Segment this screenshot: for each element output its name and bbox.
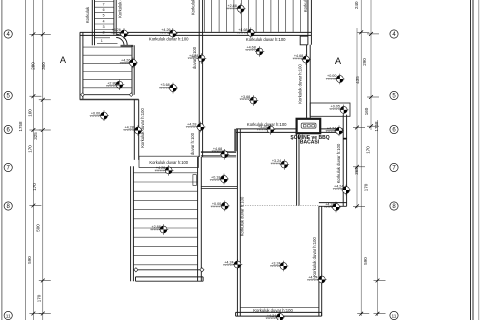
elevation +3.68 terrace mid [159,83,178,94]
right dim tick [367,95,379,99]
svg-text:Korkuluk duvar h:100: Korkuluk duvar h:100 [297,64,302,104]
elevation +4.24 long wall [223,259,242,270]
left dim tick [29,312,41,316]
chimney wall x306 [307,45,311,119]
elevation +3.24 room bottom [270,261,288,272]
right dim line B [360,0,362,316]
svg-text:365: 365 [354,167,359,175]
left dim tick [29,204,41,208]
grid bubble 8 right [390,202,398,210]
elevation +2.88 stair3 [226,4,245,15]
svg-text:+4.68: +4.68 [294,54,303,58]
stair1 left wall [92,0,94,45]
svg-text:170: 170 [36,294,41,302]
elevation +0.00 mid [211,201,230,212]
left dim tick [29,128,41,132]
grid bubble 4 right [390,30,398,38]
grid bubble 6 left [4,125,12,133]
svg-text:Korkuluk duvar h:100: Korkuluk duvar h:100 [312,237,317,277]
svg-text:+4.26: +4.26 [161,28,170,32]
svg-text:+4.68: +4.68 [238,28,247,32]
sheet right border inner [472,0,474,320]
svg-text:A: A [60,55,67,65]
svg-text:280: 280 [31,62,36,70]
wall right of niche [308,0,312,45]
elevation +4.26 big stair top [155,165,174,176]
elevation +4.24 wall x345 [333,184,351,195]
svg-text:+0.00: +0.00 [91,111,100,115]
svg-text:+0.05: +0.05 [331,105,340,109]
left dim tick [39,279,51,283]
svg-text:duvar h:100: duvar h:100 [190,132,195,155]
wall y130 left of fireplace [236,129,297,133]
stair1 treads [95,2,114,30]
elevation +2.88 big stair [150,224,168,235]
svg-text:435: 435 [355,76,360,84]
wall x235 [235,129,236,151]
svg-text:+4.68: +4.68 [213,147,222,151]
svg-text:1758: 1758 [18,121,23,132]
elevation +4.24 wall x320 [307,274,326,285]
svg-text:11: 11 [392,313,397,319]
elevation +3.68 main room [240,95,259,106]
sheet left border [1,0,3,320]
svg-text:Korkuluk: Korkuluk [303,0,308,12]
svg-text:11: 11 [6,313,11,319]
elevation +4.24 wall y130 right [326,126,344,137]
left dim tick [39,32,51,36]
svg-text:Korkuluk d: Korkuluk d [118,0,123,18]
wall y130 right of fireplace [320,129,343,133]
left dim tick [29,94,41,98]
svg-text:Korkuluk duvar h:100: Korkuluk duvar h:100 [336,143,341,183]
stair2 bottom wall [80,99,139,101]
stair2 railing line with posts [82,94,133,96]
wall x136 korkuluk [134,100,138,160]
sheet right border outer [470,0,472,320]
wall korkuluk y32 full [80,32,312,35]
right dim tick [367,124,379,128]
right dim tick [353,204,365,208]
right dim tick [357,30,369,34]
big stair label box [139,156,199,167]
stair2 treads [83,47,131,88]
stair1 landing tread b [97,43,118,45]
right wall x345 [343,115,346,207]
svg-text:Korkuluk duvar h:100: Korkuluk duvar h:100 [240,196,245,236]
elevation +0.00 lower terrace [90,110,109,121]
svg-text:duvar h:100: duvar h:100 [192,46,197,69]
wall cap x345 [343,138,346,140]
elevation +4.26 wall y32 stair1 [110,28,129,39]
stair3 treads top-center [204,0,308,32]
svg-text:3: 3 [103,25,105,29]
big stair railing line with posts [136,269,202,271]
svg-text:+4.24: +4.24 [224,260,233,264]
stair1 landing curve [116,34,127,45]
bottom room bottom wall [240,306,319,308]
svg-text:590: 590 [27,256,32,264]
door niche top-right [300,36,308,45]
thick low wall y154 [201,151,236,152]
railing wall y187 [201,186,238,188]
left dim chain line B [42,0,44,320]
right dim tick [357,312,369,316]
elevation +0.00 terrace A [326,74,345,85]
grid bubble 11 left [4,311,12,319]
right dim tick [374,312,386,316]
grid bubble 6 right [390,125,398,133]
svg-text:Korkuluk duvar h:100: Korkuluk duvar h:100 [253,308,293,313]
landing bottom wall [121,45,134,46]
svg-text:+4.28: +4.28 [124,126,133,130]
elevation +4.28 wall x200 [188,53,207,64]
svg-text:240: 240 [354,1,359,9]
stair2 left wall [80,32,83,99]
svg-text:A: A [335,56,342,66]
main room left wall x200 [199,0,202,157]
svg-text:Korkuluk duvar h:100: Korkuluk duvar h:100 [247,122,287,127]
right dim tick [353,165,365,169]
svg-text:4: 4 [103,19,105,23]
right dim tick [374,279,386,283]
big stair treads [133,173,197,265]
grid bubble 7 left [4,163,12,171]
left dim tick [39,98,51,102]
grid bubble 5 right [390,91,398,99]
svg-text:+4.26: +4.26 [121,58,130,62]
stair1 right wall [114,0,116,35]
svg-text:+4.68: +4.68 [246,45,255,49]
svg-text:1758: 1758 [374,121,379,132]
left dim line overall 1758 [24,0,26,320]
elevation +4.28 wall x200 low [186,122,206,133]
elevation +0.18 [210,174,229,185]
svg-text:+3.68: +3.68 [160,83,169,87]
elevation +4.68 wall x306 [293,54,311,65]
svg-text:+4.24: +4.24 [267,314,276,318]
svg-text:+4.28: +4.28 [187,122,196,126]
sheet right edge [478,0,480,320]
right dim line D [377,120,379,316]
svg-text:7: 7 [103,3,105,7]
elevation +0.05 shaft [329,105,348,116]
svg-text:Korkuluk duvar h:100: Korkuluk duvar h:100 [149,37,189,42]
grid bubble 4 left [4,30,12,38]
grid bubble 5 left [4,91,12,99]
svg-text:160: 160 [28,109,33,117]
elevation +4.68 room [245,45,264,56]
big stair right wall [198,157,202,281]
svg-text:+2.88: +2.88 [107,81,116,85]
svg-text:6: 6 [103,8,105,12]
grid bubble 8 left [4,202,12,210]
left dim tick [29,32,41,36]
svg-text:+4.24: +4.24 [325,203,334,207]
big stair left wall [131,166,134,281]
left dim tick [39,128,51,132]
right dim tick [353,126,365,130]
elevation +4.26 wall y32 left [160,28,178,39]
svg-text:170: 170 [32,183,37,191]
svg-text:Korkuluk duvar h:100: Korkuluk duvar h:100 [140,108,145,148]
wall x320 [319,206,322,316]
right dim tick [367,32,379,36]
wall y204 [319,203,347,207]
door niche at stair wall [193,175,197,186]
grid bubble 11 right [390,311,398,319]
svg-text:Korkuluk duvar h:100: Korkuluk duvar h:100 [149,160,188,165]
grid bubble 7 right [390,163,398,171]
stair2 right edge [132,45,134,94]
elevation +4.68 low wall [212,147,230,160]
svg-text:170: 170 [364,183,369,191]
svg-text:325: 325 [33,132,38,140]
shaft box +0.05 [310,103,350,116]
svg-text:BACASI: BACASI [300,140,320,146]
stair1 step numbers [101,3,105,44]
svg-text:+3.24: +3.24 [272,159,281,163]
svg-text:+4.26: +4.26 [111,28,120,32]
fireplace SOMINE ve BBQ BACASI [297,119,321,133]
svg-text:170: 170 [365,146,370,154]
elevation +4.26 stair2 edge [120,58,138,69]
right dim line C [370,0,372,130]
big stair bottom box [136,277,204,281]
left dim chain line A [32,0,34,320]
svg-text:+4.24: +4.24 [334,184,343,188]
svg-text:+0.00: +0.00 [327,74,336,78]
svg-text:Korkuluk: Korkuluk [85,6,90,23]
svg-text:+3.24: +3.24 [271,262,280,266]
svg-text:5: 5 [103,14,105,18]
elevation +4.68 wall y32 right [237,28,256,39]
svg-text:500: 500 [35,224,40,232]
svg-text:170: 170 [28,145,33,153]
svg-text:290: 290 [362,58,367,66]
left dim tick [39,312,51,316]
elevation +2.88 stair2 [106,79,124,90]
svg-text:160: 160 [364,107,369,115]
svg-text:+0.18: +0.18 [211,175,220,179]
svg-text:+2.88: +2.88 [227,4,236,8]
svg-text:590: 590 [363,257,368,265]
elevation +4.24 corner [324,202,341,213]
right dim line A [356,28,358,208]
svg-text:+2.88: +2.88 [151,225,160,229]
svg-text:Korkuluk: Korkuluk [191,0,196,15]
svg-text:1: 1 [101,39,103,43]
svg-text:+4.26: +4.26 [156,166,165,170]
wall x298 [297,134,299,206]
svg-text:+0.00: +0.00 [212,202,221,206]
svg-text:300: 300 [41,62,46,70]
svg-text:Korkuluk duvar h:100: Korkuluk duvar h:100 [246,37,286,42]
svg-text:+3.68: +3.68 [241,95,250,99]
elevation +3.24 room top [271,159,289,170]
thin floor line y205 [240,205,319,207]
elevation +4.24 bottom [266,312,285,320]
elevation +4.26 wall y130 left [257,124,275,135]
long wall x238 [237,129,240,316]
elevation +4.28 wall x136 [123,125,143,136]
svg-text:+4.24: +4.24 [327,126,336,130]
stair1 landing tread a [95,37,111,39]
